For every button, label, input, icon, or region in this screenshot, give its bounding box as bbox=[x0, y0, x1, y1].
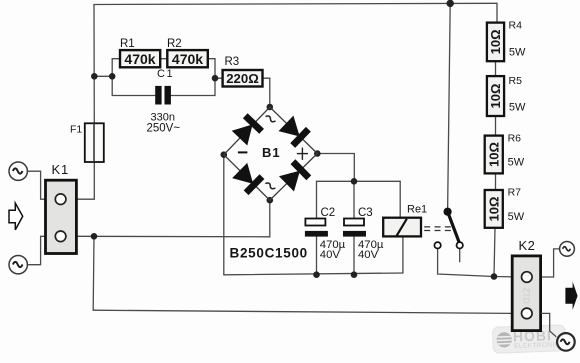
svg-text:K2: K2 bbox=[519, 238, 536, 253]
wire C1 left lead bbox=[112, 76, 155, 95]
wire C2 bottom lead bbox=[316, 237, 318, 275]
wire bridge plus output bbox=[317, 154, 354, 182]
wire dc minus bus bbox=[224, 273, 403, 275]
wire R6-R7 link bbox=[495, 173, 497, 190]
svg-text:F1: F1 bbox=[70, 124, 82, 136]
wire snubber feed line left bbox=[94, 75, 112, 77]
junction node bridge left minus bbox=[221, 151, 228, 158]
wire AC source L2 to K1 bottom bbox=[28, 236, 46, 264]
wire K1 bottom terminal inside box bbox=[46, 235, 55, 237]
svg-text:5W: 5W bbox=[509, 47, 526, 59]
junction node K1 bottom bbox=[91, 233, 98, 240]
wire C3 bottom lead bbox=[353, 237, 355, 275]
wire Re1 bottom lead bbox=[402, 236, 404, 273]
wire K2 bottom to AC out lower bbox=[541, 313, 557, 336]
svg-text:R7: R7 bbox=[508, 187, 522, 199]
relay mechanical link dashes bbox=[424, 227, 452, 231]
wire switch output to K2 junction bbox=[438, 249, 494, 277]
svg-text:R6: R6 bbox=[508, 133, 522, 145]
fuse F1 bbox=[85, 123, 104, 162]
junction node R2/C1 right bbox=[212, 75, 219, 82]
bridge AC tilde bottom bbox=[265, 182, 275, 191]
svg-text:220Ω: 220Ω bbox=[226, 71, 259, 86]
wire top rail right drop to R4 bbox=[496, 3, 498, 21]
svg-text:C2: C2 bbox=[321, 207, 336, 219]
wire bridge minus drop bbox=[223, 155, 225, 275]
svg-text:10Ω: 10Ω bbox=[488, 29, 503, 54]
junction node plus bus C3 bbox=[351, 178, 358, 185]
wire K2 top terminal inside box bbox=[512, 276, 521, 278]
junction node bridge right plus bbox=[314, 150, 321, 157]
resistor R1 bbox=[120, 50, 160, 67]
wire Re1 top lead bbox=[399, 181, 401, 217]
svg-text:B250C1500: B250C1500 bbox=[230, 246, 308, 261]
AC source G1 top left bbox=[9, 162, 27, 180]
bridge rectifier B1 diamond outline bbox=[224, 107, 317, 200]
diode D-topright of B1 bbox=[278, 115, 311, 148]
bridge AC tilde top bbox=[265, 115, 275, 124]
svg-text:10Ω: 10Ω bbox=[486, 197, 501, 222]
junction node snubber left bbox=[91, 73, 98, 80]
wire switch feed from top rail bbox=[448, 3, 451, 211]
AC output upper bbox=[560, 242, 575, 257]
capacitor C2 electrolytic bbox=[305, 219, 328, 237]
wire K1 top terminal inside box bbox=[46, 198, 55, 200]
wire R1 left lead bbox=[112, 59, 120, 77]
wire left vertical from top rail to F1 bbox=[93, 5, 95, 124]
svg-text:R3: R3 bbox=[225, 56, 240, 68]
wire junction to K2 top terminal bbox=[494, 276, 512, 278]
wire top rail bbox=[94, 3, 497, 4]
svg-text:R5: R5 bbox=[509, 75, 523, 87]
diode D-bottomleft of B1 bbox=[232, 162, 265, 195]
diode D-topleft of B1 bbox=[231, 113, 264, 146]
svg-text:C3: C3 bbox=[358, 207, 373, 219]
svg-text:40V: 40V bbox=[358, 249, 379, 261]
junction node bridge top bbox=[267, 104, 274, 111]
junction node R1/C1 left bbox=[109, 73, 116, 80]
wire F1 bottom to K1 top terminal bbox=[76, 162, 94, 199]
wire R3 to bridge top node bbox=[263, 78, 270, 107]
wire K2 top to AC out upper bbox=[541, 249, 560, 277]
AC output lower bbox=[557, 333, 575, 351]
watermark logo bbox=[492, 325, 565, 354]
wire R2 right lead bbox=[208, 59, 215, 78]
wire AC source L1 to K1 top bbox=[28, 171, 46, 199]
wire bottom rail bbox=[93, 310, 512, 313]
svg-text:250V~: 250V~ bbox=[147, 123, 181, 135]
wire K1 bottom to bridge AC node bbox=[76, 200, 269, 237]
svg-text:40V: 40V bbox=[320, 249, 341, 261]
svg-text:K1: K1 bbox=[52, 162, 70, 177]
resistor R7 bbox=[485, 190, 503, 228]
output arrow bbox=[565, 282, 577, 310]
svg-text:ZTD: ZTD bbox=[522, 287, 532, 304]
resistor R3 bbox=[223, 70, 263, 87]
input arrow bbox=[9, 203, 23, 230]
svg-text:10Ω: 10Ω bbox=[486, 142, 501, 167]
relay coil Re1 bbox=[383, 218, 421, 237]
resistor R2 bbox=[167, 50, 208, 67]
junction node minus bus C2 bbox=[313, 271, 320, 278]
svg-text:10Ω: 10Ω bbox=[488, 84, 503, 109]
wire R4 chain link 1 bbox=[495, 61, 497, 76]
wire C3 top lead bbox=[353, 181, 355, 218]
diode D-bottomright of B1 bbox=[279, 159, 312, 192]
wire C2 top lead bbox=[316, 181, 318, 218]
bridge minus sign bbox=[238, 151, 248, 153]
wire dc plus bus bbox=[317, 180, 401, 182]
wire R7 to K2 junction bbox=[494, 228, 495, 277]
junction node at top rail x450 bbox=[447, 0, 454, 7]
relay switch contact bbox=[434, 208, 463, 249]
terminal block K2 bbox=[512, 256, 540, 331]
svg-text:R4: R4 bbox=[509, 20, 523, 32]
svg-text:C1: C1 bbox=[157, 68, 174, 80]
wire snubber feed line right bbox=[215, 77, 223, 79]
svg-text:470k: 470k bbox=[172, 51, 203, 67]
wire R1-R2 link bbox=[160, 58, 167, 60]
terminal block K1 bbox=[46, 180, 77, 253]
svg-text:5W: 5W bbox=[509, 102, 526, 114]
AC source G2 bottom left bbox=[9, 256, 27, 274]
svg-text:Re1: Re1 bbox=[407, 204, 427, 216]
wire switch NC stub bbox=[459, 249, 461, 262]
wire K2 bottom terminal inside box bbox=[512, 312, 521, 314]
wire C1 right lead bbox=[171, 78, 215, 95]
wire R5-R6 link bbox=[495, 116, 497, 136]
resistor R6 bbox=[485, 136, 503, 174]
svg-text:5W: 5W bbox=[508, 157, 525, 169]
junction node bridge bottom bbox=[267, 197, 274, 204]
capacitor C3 electrolytic bbox=[343, 219, 366, 237]
wire F1 through-line bbox=[93, 123, 95, 162]
svg-text:5W: 5W bbox=[508, 211, 525, 223]
resistor R4 bbox=[487, 23, 504, 62]
junction node minus bus C3 bbox=[351, 271, 358, 278]
capacitor C1 bbox=[155, 86, 171, 105]
svg-text:470k: 470k bbox=[124, 51, 155, 67]
wire neutral drop from K1 junction bbox=[92, 236, 95, 310]
svg-text:R1: R1 bbox=[120, 38, 135, 50]
bridge plus sign bbox=[297, 148, 308, 160]
resistor R5 bbox=[487, 76, 504, 116]
svg-text:B1: B1 bbox=[262, 145, 281, 160]
svg-text:R2: R2 bbox=[167, 38, 182, 50]
junction node K2 top bbox=[491, 273, 498, 280]
